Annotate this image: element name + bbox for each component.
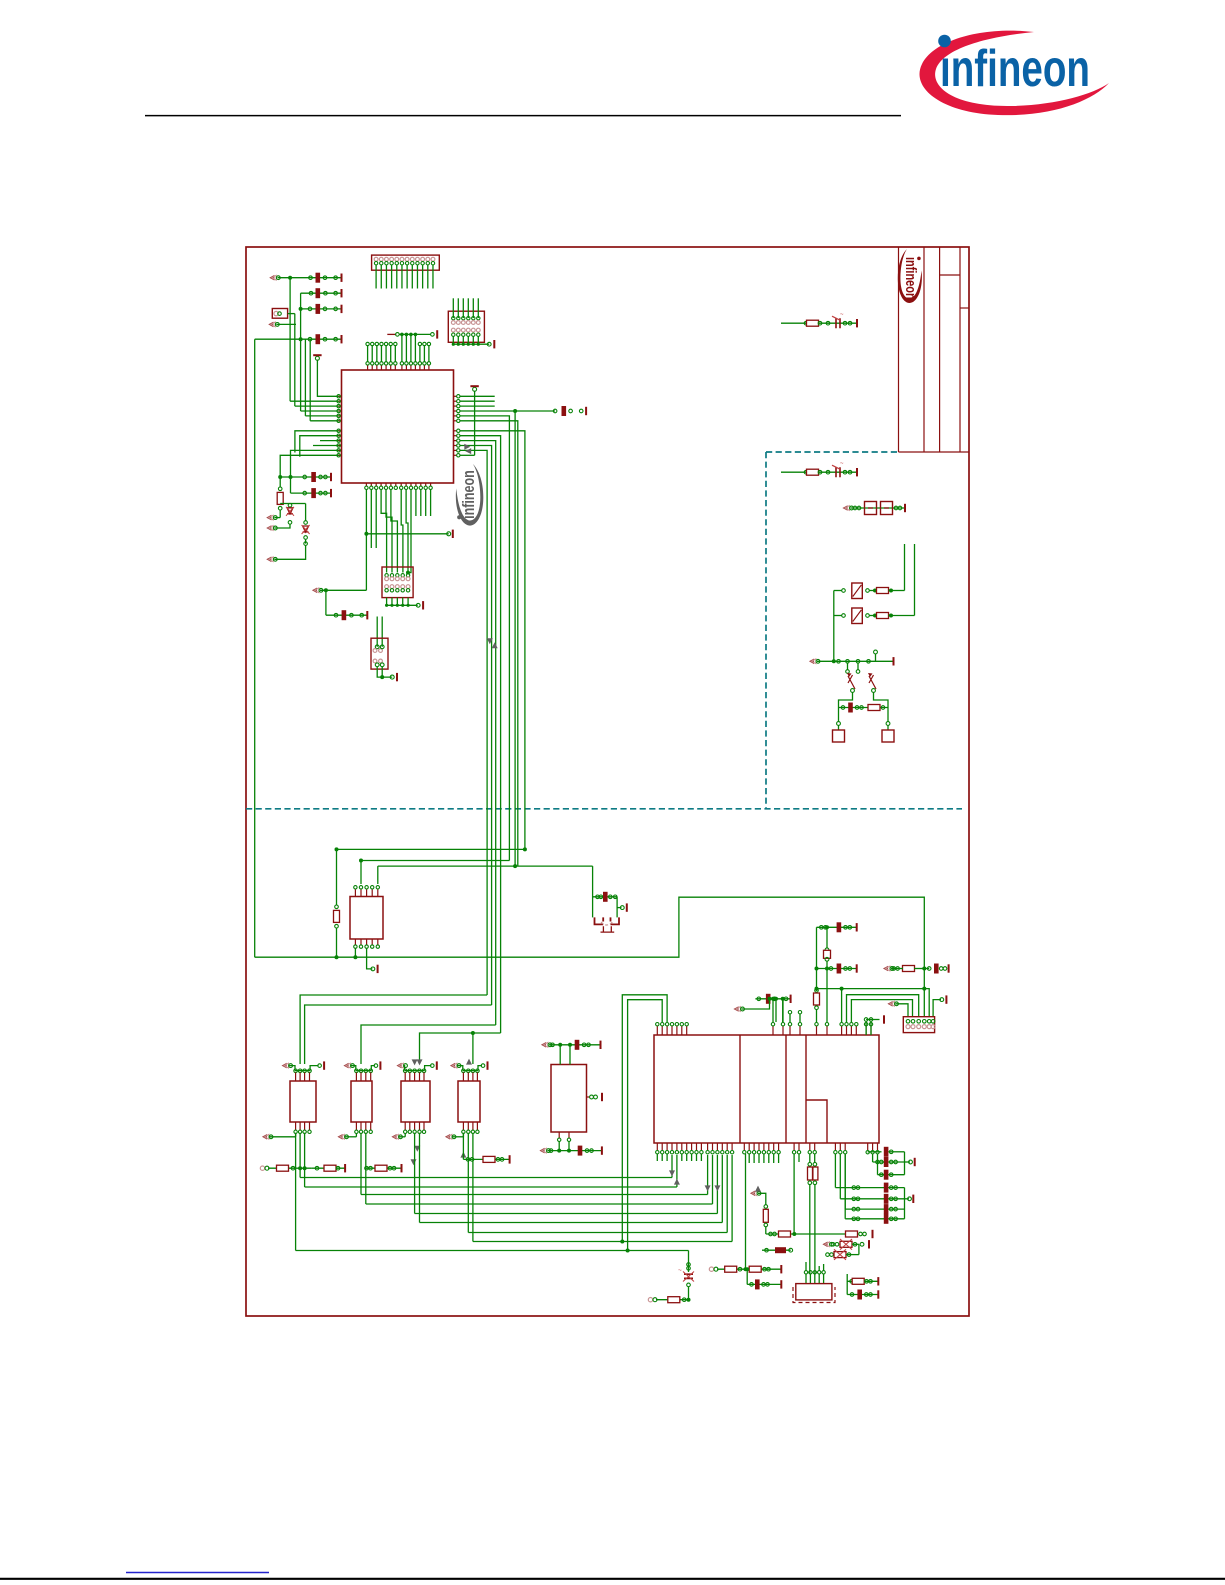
wire U2 pin3 to end bar <box>367 949 373 969</box>
wire U1 pin row 446 <box>313 445 339 447</box>
U5 bottom pin x749.2 <box>748 1143 750 1150</box>
U1 top pin 10 <box>410 365 412 370</box>
capacitor C9 polarized <box>832 461 844 477</box>
U1 right pin y406.1 <box>454 405 458 407</box>
wire node to upper bar <box>875 654 877 662</box>
net stub to SV3 <box>887 1001 892 1007</box>
diode D1 (vertical) <box>288 503 292 507</box>
bus rail y1213.5 left drop <box>414 1133 416 1214</box>
wire U1 right row 416 (bus B4) <box>460 416 510 861</box>
bus rail y1241.5 right rise <box>731 1155 733 1242</box>
J2 ground rail <box>387 604 418 606</box>
SV1 pin 3 <box>385 257 389 261</box>
bus rail y1213.5 <box>415 1213 718 1215</box>
wire legs to pads <box>838 708 840 723</box>
U5 bottom pin x867.7 <box>867 1143 869 1150</box>
bus feed line y1025 to U4 <box>361 1025 496 1064</box>
U1 bottom pin x406.1 <box>405 483 407 486</box>
crystal module XT2 body <box>796 1284 832 1300</box>
IC U8 body <box>458 1081 480 1122</box>
wire U1 right row 456 to pulldown <box>460 454 475 456</box>
bus line y849 to U2 pull-up <box>337 848 525 850</box>
wire U1 right row 411 to cap C7 <box>460 410 556 412</box>
SV3 aux pin with bar <box>933 1000 941 1017</box>
bus rail y1241.5 <box>473 1241 732 1243</box>
crystal Q5 plates <box>595 917 604 924</box>
U1 left pin y430.8 <box>338 430 341 432</box>
gray arrow rail c <box>705 1185 711 1191</box>
U5 bottom pin x799 <box>798 1143 800 1150</box>
gray arrow U6 top b <box>417 1059 423 1065</box>
U7 top wires <box>559 1045 561 1065</box>
wire stub down to C8 row <box>325 590 327 615</box>
wire D2 to node <box>290 503 306 505</box>
wire U2 pin1 to rail <box>354 949 356 958</box>
capacitor C18 polarized <box>832 312 844 328</box>
wire U1 bottom dangle x425.7 <box>425 490 427 517</box>
U5 bottom pin x662.2 <box>661 1143 663 1150</box>
wire U1 pin row 456 to lower rail <box>280 455 338 487</box>
capacitor C3 row <box>301 308 342 310</box>
U1 right pin y430.8 <box>454 430 458 432</box>
cap C13 row left <box>755 998 790 1000</box>
net stub DNP row a <box>822 1242 827 1248</box>
wire R4 to rail b <box>889 615 915 617</box>
SV2 ground rail <box>453 343 489 345</box>
crystal module XT2 pins <box>804 1271 807 1274</box>
U6 bottom pins <box>404 1122 406 1130</box>
SV1 pin 11 <box>426 257 430 261</box>
wire U1 pin row 451 to cap rail <box>291 450 339 493</box>
long ground rail y957 <box>255 897 925 1017</box>
title block vertical line 2 <box>923 247 925 452</box>
connector SV3 <box>903 1017 934 1033</box>
U3 top pin x309.5 <box>308 1069 312 1073</box>
wire U1 bottom dangle x420.8 <box>420 490 422 517</box>
title block Infineon logo (rotated) <box>898 249 922 303</box>
SV1 pin 4 <box>390 257 394 261</box>
title block vertical line 3 <box>939 247 941 452</box>
capacitor C6 row <box>291 492 332 494</box>
J2 pin column 1 <box>385 574 388 577</box>
wire Q4 emitter down <box>874 693 889 708</box>
wire U5 pin x744 down <box>745 1154 747 1269</box>
U1 top pin 8 <box>401 365 403 370</box>
jumper JP1 <box>272 309 287 319</box>
U5 top pin x783 <box>782 1026 784 1035</box>
SV3 pin 1 <box>906 1020 910 1024</box>
SV3 pin 3 <box>917 1020 921 1024</box>
wire U1 right row 436 (bus B3b) <box>460 436 501 1033</box>
net stub pin row1 <box>269 275 274 281</box>
U2 top pin x372.2 <box>371 890 373 897</box>
resistor R3 <box>877 588 889 594</box>
U3 bottom pins <box>295 1122 297 1130</box>
SV3 pin 4 <box>923 1020 927 1024</box>
bus rail y1204 <box>366 1203 713 1205</box>
wire pair from top right b <box>914 544 916 616</box>
U8 top rail <box>458 1066 463 1071</box>
wire U1 pin row 421 <box>310 420 338 422</box>
U5 bottom pin x696.5 <box>696 1143 698 1150</box>
U5 top pin x871 <box>870 1026 872 1035</box>
U1 top pin 1 <box>367 365 369 370</box>
title block vertical line 1 <box>898 247 900 452</box>
U5 bottom pin x845.2 <box>844 1143 846 1150</box>
resistor R20 row <box>846 1274 848 1295</box>
bus rail y1232.5 right rise <box>726 1155 728 1233</box>
dashed box left edge <box>765 452 767 809</box>
wire from stub to rail <box>276 323 296 325</box>
U1 left pin y396.3 <box>338 395 341 397</box>
U5 bottom pin x778.6 <box>778 1143 780 1150</box>
U1 right pin y440.6 <box>454 440 458 442</box>
wire U1 pin row 411 <box>301 410 339 412</box>
cap C10 row <box>839 707 889 709</box>
U1 top pin 2 <box>371 365 373 370</box>
U3 top pin x300.1 <box>298 1069 302 1073</box>
U5 top pin x816.5 <box>816 1026 818 1035</box>
U5 bottom pin x732.1 <box>731 1143 733 1150</box>
U1 top pin 12 <box>419 365 421 370</box>
U2 bottom pin x366.6 <box>366 939 368 945</box>
wire U1 right row 441 (bus B3) <box>460 441 496 1025</box>
U1 left pin y440.6 <box>338 440 341 442</box>
wire staircase 401.2 to J2 column 402.9 <box>401 490 403 573</box>
crystal top cap row <box>593 896 618 898</box>
wire U1 bottom dangle 3 <box>375 490 377 549</box>
U5 internal divider 2 <box>785 1035 787 1143</box>
SV1 pin 8 <box>410 257 414 261</box>
connector SV2 <box>448 311 484 342</box>
U1 bottom pin x381.1 <box>380 483 382 486</box>
wire U1 right row 431 (bus B6) <box>460 431 525 850</box>
U5 pin wires dangling up a <box>789 1014 791 1023</box>
gray arrow U6 mid a <box>414 1146 420 1152</box>
Infineon header logo <box>919 31 1109 116</box>
U5 bottom dangles G3 <box>748 1154 750 1163</box>
bus feed line y995 to U3 <box>300 995 487 1064</box>
U7 right pin <box>587 1096 591 1098</box>
resistor R21 row bottom <box>648 1298 652 1302</box>
U5 top pin x667.1 <box>666 1026 668 1035</box>
bus to SV3 y999 <box>851 1000 912 1022</box>
resistor R11 row <box>365 1166 369 1170</box>
U1 right pin y396.3 <box>454 395 458 397</box>
U1 right pin y435.7 <box>454 435 458 437</box>
U5 bottom pin x763.9 <box>763 1143 765 1150</box>
junction on C1 row <box>288 276 292 280</box>
resistor R16 row <box>766 1233 795 1235</box>
U5 top pin x846.5 <box>846 1026 848 1035</box>
bus rail y1222.5 right rise <box>721 1155 723 1223</box>
IC U3 body <box>290 1081 316 1122</box>
SV2 pin column 3 <box>462 317 465 320</box>
SV1 pin 5 <box>395 257 399 261</box>
pad P1 <box>838 726 840 731</box>
U7 feed row <box>541 1042 546 1048</box>
bus rail y1204 left drop <box>365 1133 367 1204</box>
SV2 pin column 2 <box>457 317 460 320</box>
U1 bottom pin x430.6 <box>430 483 432 486</box>
U5 bottom pin x744.3 <box>743 1143 745 1150</box>
resistor R6 vertical above U2 <box>336 849 338 905</box>
bus feed line y1033 to U6 and U8 <box>420 1033 501 1064</box>
U1 top pin 9 <box>405 365 407 370</box>
gray arrow right of U1 b <box>465 448 471 454</box>
SV2 pin column 4 <box>467 317 470 320</box>
capacitor C8 row <box>326 614 367 616</box>
svg-text:~: ~ <box>840 312 844 318</box>
junction row456 rail <box>278 475 282 479</box>
title block vertical line 4 <box>959 247 961 452</box>
gray arrow rail d <box>714 1185 720 1191</box>
gray arrow U6 mid b <box>411 1159 417 1165</box>
U5 top pin x841.6 <box>841 1026 843 1035</box>
wire U1 right row 401 <box>460 400 495 402</box>
U1 bottom pin x390.9 <box>390 483 392 486</box>
U3 bottom rail stub <box>262 1134 267 1140</box>
U1 top pin 11 <box>414 365 416 370</box>
U6 bottom rail stub <box>391 1134 396 1140</box>
DNP cap column <box>688 1251 690 1273</box>
connector J3 <box>371 638 388 669</box>
J2 pin column 3 <box>396 574 399 577</box>
wire R3 to rail <box>889 590 905 592</box>
transistor Q3 diagonal <box>848 675 855 689</box>
bus rail y1213.5 right rise <box>716 1155 718 1214</box>
U5 bottom pin x809.8 <box>809 1143 811 1150</box>
bus to SV3 y988 <box>842 989 930 1022</box>
U1 bottom pin x415.9 <box>415 483 417 486</box>
SV2 pin column 5 <box>472 317 475 320</box>
U5 bottom pin x657.3 <box>656 1143 658 1150</box>
SV2 pin column 1 <box>452 317 455 320</box>
U6 top rail <box>403 1066 406 1071</box>
wire U1 pin row 436 <box>300 436 339 457</box>
U5 bottom pin x701.4 <box>700 1143 702 1150</box>
bus rail y1232.5 <box>468 1232 727 1234</box>
svg-text:ınfineon: ınfineon <box>902 257 918 300</box>
net stub pin mid right <box>809 659 814 665</box>
U2 bottom pin x355.4 <box>354 939 356 945</box>
wire H to end bar right of U1 bottom <box>366 533 448 535</box>
U1 top pin 14 <box>428 365 430 370</box>
U1 bottom pin x366.4 <box>365 483 367 486</box>
stub caps on node a <box>847 663 849 670</box>
wire Pi feed outer <box>622 995 667 1242</box>
U5 bottom pin x835.4 <box>834 1143 836 1150</box>
U1 right pin y450.4 <box>454 449 458 451</box>
wire U1 right row 421 (bus B5) <box>460 421 518 866</box>
vertical wire x474 with end bar <box>474 391 476 456</box>
resistor R2 row <box>781 471 857 473</box>
wire U1 pin row 431 <box>295 431 339 453</box>
wire cap row to U5 pin b <box>782 999 784 1022</box>
wire U1 bottom dangle x430.6 <box>430 490 432 517</box>
U8 top pin x463.4 <box>462 1069 466 1073</box>
net stub pin and wire y590 <box>312 588 317 594</box>
net stub pin VDD-left <box>266 515 271 521</box>
bus rail y1194.5 <box>361 1194 708 1196</box>
crystal branch vertical <box>592 866 594 917</box>
wire U1 pin row 416 <box>305 415 338 417</box>
resistor R24 row (supply filter) <box>781 322 857 324</box>
U5 bottom pin x686.7 <box>686 1143 688 1150</box>
wire stub down R15 <box>758 1193 766 1205</box>
cap C16 row <box>847 1294 878 1296</box>
J2 pin column 5 <box>406 574 409 577</box>
wire U1 pin row 406 <box>295 405 339 407</box>
U1 right pin y445.5 <box>454 445 458 447</box>
crystal Y1 vertical <box>826 927 828 948</box>
resistor R4 <box>877 613 889 619</box>
SV3 pin 2 <box>911 1020 915 1024</box>
resistor R1 (vertical) <box>278 487 282 491</box>
caps group A row1 <box>868 1151 882 1153</box>
wire down to U2 pin a <box>360 861 362 885</box>
bus rail y1177.5 right rise <box>671 1155 673 1178</box>
U5 top pin x672 <box>671 1026 673 1035</box>
U1 bottom pin x420.8 <box>420 483 422 486</box>
bus rail y1250.5 left drop <box>295 1133 297 1251</box>
U6 top pin x409.8 <box>408 1069 412 1073</box>
wire DNP join vertical <box>858 1244 860 1254</box>
U5 bottom pin x707.6 <box>707 1143 709 1150</box>
U5 top pin x657.3 <box>656 1026 658 1035</box>
J2 pin column 2 <box>390 574 393 577</box>
U5 bottom pin x877.5 <box>877 1143 879 1150</box>
wire staircase 381.1 to J2 column 386.6 <box>381 490 387 573</box>
caps group A row3 <box>877 1154 879 1175</box>
U5 pin wire x783 <box>782 999 784 1022</box>
U8 top pin x472.9 <box>471 1069 475 1073</box>
wire to J3 pin b <box>381 617 383 647</box>
U7 ground row <box>539 1148 544 1154</box>
wire rail x300 <box>300 293 302 411</box>
wire U1 right row 446 (bus B2) <box>460 446 492 1006</box>
bus rail y1204 right rise <box>712 1155 714 1204</box>
U5 top pin x827 <box>826 1026 828 1035</box>
SV1 pin 1 <box>374 257 378 261</box>
U4 top rail <box>351 1066 356 1071</box>
svg-text:ınfineon: ınfineon <box>459 470 478 519</box>
caps group B rows <box>834 1154 836 1188</box>
svg-text:~: ~ <box>840 461 844 467</box>
dashed partition horizontal <box>246 808 962 810</box>
connector J2 <box>382 567 413 598</box>
transistor Q2 (boxed) <box>842 614 846 618</box>
U8 top pin x477.4 <box>476 1069 480 1073</box>
U1 top pin 13 <box>423 365 425 370</box>
bus rail y1177.5 <box>300 1177 672 1179</box>
cap C11 row <box>817 926 857 928</box>
U7 bottom pins <box>558 1132 560 1138</box>
resistor R17 row <box>846 1231 858 1237</box>
U1 bottom pin x371.3 <box>370 483 372 486</box>
resistor R10 row <box>311 1167 345 1169</box>
wire stub to D1 bottom <box>274 524 290 528</box>
U5 bottom pin x672 <box>671 1143 673 1150</box>
U8 bottom pins <box>462 1122 464 1130</box>
U5 bottom dangles G1 <box>656 1154 658 1161</box>
wire staircase 406.1 to J2 column 408 <box>406 490 408 573</box>
wire cap row to U5 pin a <box>775 999 777 1022</box>
U1 bottom pin x401.2 <box>400 483 402 486</box>
U5 top pin x790 <box>789 1026 791 1035</box>
wire Q1 to R3 <box>870 590 876 592</box>
IC U7 body <box>551 1065 587 1133</box>
J3 pins <box>375 645 379 649</box>
U5 bottom pin x872.6 <box>872 1143 874 1150</box>
U5 bottom pin x794.1 <box>793 1143 795 1150</box>
U5 bottom pin x773.7 <box>773 1143 775 1150</box>
gray arrow right of U1 a <box>464 444 470 450</box>
U3 top pin x295.6 <box>294 1069 298 1073</box>
long left rail to lower section <box>254 339 256 957</box>
junction on C4 row <box>299 337 303 341</box>
dashed box top edge <box>766 451 899 453</box>
wire H above U1 with pin stubs <box>387 333 396 335</box>
wire Q2 left <box>834 615 842 617</box>
U6 top pin x414.6 <box>413 1069 417 1073</box>
wire Q3 emitter down <box>839 693 853 708</box>
solder jumper SJ1 <box>865 502 877 515</box>
U5 top pin x800 <box>799 1026 801 1035</box>
U1 bottom pin x386 <box>385 483 387 486</box>
diode D2 (vertical) <box>305 504 307 522</box>
U5 bottom pin x717.4 <box>716 1143 718 1150</box>
net stub pin below JP1 <box>268 322 273 328</box>
U5 top pin x866.1 <box>865 1026 867 1035</box>
U1 left pin y406.1 <box>338 405 341 407</box>
U1 bottom pin x411 <box>410 483 412 486</box>
resistor R7 vertical <box>815 989 819 993</box>
wire U1 pin row 441 <box>320 440 339 442</box>
U5 top pin x851.4 <box>850 1026 852 1035</box>
junction row451 rail <box>289 475 293 479</box>
cap C17 row <box>746 1269 748 1284</box>
DNP resistor R19 <box>834 1252 846 1258</box>
U5 internal divider 1 <box>739 1035 741 1143</box>
microcontroller U1 <box>342 370 454 483</box>
bus rail y1194.5 left drop <box>360 1133 362 1195</box>
U5 top pin x686.7 <box>686 1026 688 1035</box>
gray arrow bus a <box>487 638 493 644</box>
U1 right pin y401.2 <box>454 400 458 402</box>
net stub pin GND-left <box>266 557 271 563</box>
cap C15 row <box>762 1249 791 1251</box>
U1 left pin y450.4 <box>338 449 341 451</box>
U5 bottom pin x681.8 <box>681 1143 683 1150</box>
wire R16 to R17 <box>794 1233 845 1235</box>
bus feed line y1005 to U3 <box>305 1005 492 1064</box>
U1 bottom pin x395.8 <box>395 483 397 486</box>
gray arrow U6 top a <box>412 1059 418 1065</box>
U5 internal divider 3 <box>805 1035 807 1143</box>
transistor Q1 (boxed) <box>842 589 846 593</box>
wire U1 right row 451 (bus B1) <box>460 450 488 995</box>
U1 right pin y420.8 <box>454 420 458 422</box>
bus rail y1222.5 left drop <box>419 1133 421 1223</box>
svg-text:ınfineon: ınfineon <box>940 40 1090 98</box>
U5 pin wire x773 <box>772 999 774 1022</box>
U8 bottom rail stub <box>445 1134 450 1140</box>
U3 top pin x304.6 <box>303 1069 307 1073</box>
U4 top pin x361 <box>359 1069 363 1073</box>
gray arrow rail a <box>669 1170 675 1176</box>
SV3 pin 6 <box>931 1020 935 1024</box>
